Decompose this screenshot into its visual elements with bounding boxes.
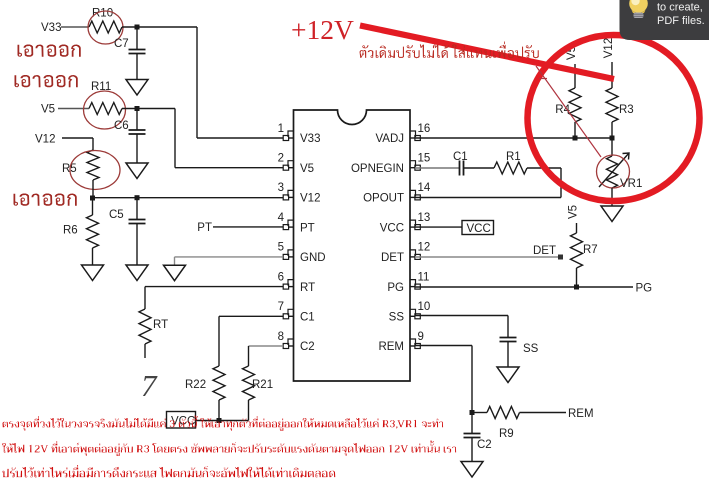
wire R5 to junction — [92, 180, 94, 198]
svg-text:PT: PT — [300, 222, 315, 234]
svg-text:VCC: VCC — [380, 222, 404, 234]
pin 3 V12 of U1 — [278, 182, 321, 204]
junction V5/C6 — [135, 106, 140, 111]
red Thai note line 1 — [3, 416, 444, 431]
svg-text:RT: RT — [300, 282, 315, 294]
svg-text:DET: DET — [381, 252, 404, 264]
pin 14 OPOUT of U1 — [363, 182, 431, 204]
pin 5 GND of U1 — [278, 242, 326, 264]
resistor R5 — [62, 150, 99, 180]
svg-text:R3: R3 — [619, 104, 634, 116]
ground under C5 — [126, 265, 148, 281]
junction REM/C2 — [470, 410, 475, 415]
svg-text:3: 3 — [278, 182, 284, 194]
capacitor C7 — [114, 38, 146, 54]
wire C7 to ground — [136, 54, 138, 80]
wire SS cap to ground — [507, 342, 509, 368]
wire R11 to corner to pin2 — [122, 109, 283, 168]
svg-text:8: 8 — [278, 331, 284, 343]
pin 7 C1 of U1 — [278, 301, 315, 323]
capacitor C2 — [464, 413, 492, 462]
red thick strike line — [360, 26, 614, 80]
wire pin9 REM down — [415, 346, 472, 413]
svg-text:9: 9 — [418, 331, 424, 343]
red Thai label remove-2 — [15, 75, 78, 87]
resistor R4 — [555, 64, 581, 138]
svg-text:V5: V5 — [568, 205, 580, 219]
node V33 label — [41, 22, 61, 34]
svg-text:VADJ: VADJ — [375, 133, 404, 145]
wire pin8 C2 to R21 — [249, 346, 284, 366]
node V5 label — [41, 103, 55, 115]
resistor R6 — [63, 198, 99, 265]
red Thai note line 2 — [2, 441, 456, 456]
svg-text:R21: R21 — [252, 379, 273, 391]
svg-text:R1: R1 — [506, 151, 521, 163]
junction VADJ/R3 — [610, 136, 615, 141]
svg-text:OPOUT: OPOUT — [363, 193, 404, 205]
svg-text:14: 14 — [418, 182, 431, 194]
svg-text:V5: V5 — [300, 163, 314, 175]
svg-text:R4: R4 — [555, 104, 570, 116]
red Thai note line 3 — [2, 465, 335, 477]
junction VCC rail R22 — [217, 418, 222, 423]
junction V33/C7 — [135, 25, 140, 30]
wire R3 to VR1 — [611, 138, 613, 156]
svg-text:SS: SS — [389, 312, 405, 324]
svg-text:V12: V12 — [300, 193, 320, 205]
junction PG/R7 — [574, 285, 579, 290]
pin 12 DET of U1 — [381, 242, 430, 264]
ground at pin5 — [164, 265, 186, 281]
svg-text:2: 2 — [278, 153, 284, 165]
pin 2 V5 of U1 — [278, 153, 314, 175]
red thin pointer line to VR1 — [536, 66, 601, 157]
power flag VCC bottom — [167, 412, 196, 429]
wire pin15 to C1 — [415, 167, 460, 169]
svg-text:V12: V12 — [603, 38, 615, 58]
svg-text:PDF files.: PDF files. — [657, 15, 705, 27]
junction R5/R6 node — [90, 196, 95, 201]
svg-text:V33: V33 — [41, 22, 61, 34]
svg-text:GND: GND — [300, 252, 326, 264]
svg-text:7: 7 — [141, 368, 158, 403]
svg-text:OPNEGIN: OPNEGIN — [351, 163, 404, 175]
wire V33 to R10 — [61, 26, 89, 28]
red Thai label remove-3 — [14, 194, 77, 206]
ground under C7 — [126, 80, 148, 96]
svg-text:R5: R5 — [62, 163, 77, 175]
wire VR1 to ground — [611, 188, 613, 206]
wire junction to C7 — [136, 27, 138, 50]
svg-text:C1: C1 — [453, 151, 468, 163]
red circle annotation around R10 — [88, 11, 123, 44]
wire R10 to corner — [122, 27, 283, 138]
svg-text:R22: R22 — [185, 379, 206, 391]
op-amp controller IC U1 — [294, 110, 411, 381]
wire R21 to VCC rail — [248, 400, 250, 421]
pin 1 V33 of U1 — [278, 123, 321, 145]
wire junction to C6 — [136, 109, 138, 131]
resistor R9 — [472, 407, 566, 441]
wire PT to pin4 — [213, 226, 283, 228]
svg-text:REM: REM — [378, 341, 404, 353]
svg-text:C6: C6 — [114, 120, 129, 132]
wire C6 to ground — [136, 134, 138, 163]
wire VCC to R22/R21 — [196, 420, 249, 422]
node V12 label — [35, 133, 55, 145]
svg-text:VCC: VCC — [467, 223, 491, 235]
pin 13 VCC of U1 — [380, 212, 431, 234]
svg-text:15: 15 — [418, 153, 431, 165]
svg-text:V33: V33 — [300, 133, 320, 145]
pin 16 VADJ of U1 — [375, 123, 430, 145]
svg-text:C7: C7 — [114, 38, 129, 50]
pin 9 REM of U1 — [378, 331, 423, 353]
ground under C2 — [461, 462, 483, 478]
svg-text:5: 5 — [278, 242, 284, 254]
ground under VR1 — [601, 206, 623, 222]
wire pin13 to VCC — [415, 226, 462, 228]
svg-text:+12V: +12V — [291, 14, 354, 45]
wire node to pin3 V12 — [93, 197, 284, 199]
wire RT open end — [144, 344, 146, 358]
wire R1 to pin14 OPOUT — [415, 168, 561, 198]
ground under C6 — [126, 163, 148, 179]
pin 8 C2 of U1 — [278, 331, 315, 353]
red Thai annotation near +12V — [360, 42, 539, 59]
svg-text:11: 11 — [418, 271, 430, 283]
ground under SS — [497, 367, 519, 383]
pin 6 RT of U1 — [278, 271, 316, 293]
svg-text:7: 7 — [278, 301, 284, 313]
svg-text:6: 6 — [278, 271, 284, 283]
capacitor C5 — [109, 198, 146, 265]
resistor R1 — [494, 151, 527, 174]
pin 10 SS of U1 — [389, 301, 431, 323]
svg-text:16: 16 — [418, 123, 431, 135]
pin 4 PT of U1 — [278, 212, 315, 234]
svg-text:C5: C5 — [109, 209, 124, 221]
PDF-creator popup banner — [620, 0, 709, 40]
wire R22 to VCC rail — [218, 400, 220, 421]
ground under R6 — [82, 265, 104, 281]
resistor R22 — [185, 366, 225, 400]
capacitor C1 — [453, 151, 468, 176]
node PT label — [197, 222, 212, 234]
svg-text:RT: RT — [153, 319, 168, 331]
svg-text:4: 4 — [278, 212, 285, 224]
node DET terminal — [558, 255, 563, 260]
pin 11 PG of U1 — [387, 271, 429, 293]
svg-text:V5: V5 — [41, 103, 55, 115]
svg-text:PG: PG — [387, 282, 404, 294]
red circle annotation around R11 — [84, 91, 126, 129]
svg-text:13: 13 — [418, 212, 431, 224]
svg-text:REM: REM — [568, 408, 594, 420]
capacitor SS — [500, 338, 539, 356]
wire pin11 PG — [415, 286, 633, 288]
resistor R7 — [571, 223, 598, 287]
svg-text:V12: V12 — [35, 133, 55, 145]
svg-text:VR1: VR1 — [620, 178, 642, 190]
potentiometer VR1 — [597, 153, 643, 190]
wire pin12 DET — [415, 256, 558, 258]
svg-text:PG: PG — [636, 282, 653, 294]
resistor R3 — [606, 62, 634, 138]
resistor R11 — [89, 81, 122, 115]
junction VADJ/R4 — [573, 136, 578, 141]
red circle annotation around R5 — [70, 151, 120, 190]
svg-text:12: 12 — [418, 242, 431, 254]
wire pin16 VADJ to R3 — [415, 137, 612, 139]
svg-text:C1: C1 — [300, 312, 315, 324]
svg-text:1: 1 — [278, 123, 284, 135]
svg-text:C2: C2 — [477, 439, 492, 451]
resistor R10 — [89, 8, 122, 34]
svg-text:PT: PT — [197, 222, 212, 234]
power flag VCC right — [462, 221, 494, 235]
svg-text:SS: SS — [523, 343, 539, 355]
wire C1 to R1 — [464, 167, 495, 169]
wire pin5 GND to ground — [175, 257, 284, 265]
svg-text:R7: R7 — [583, 244, 598, 256]
wire V5 to R11 — [58, 108, 89, 110]
pin 15 OPNEGIN of U1 — [351, 153, 430, 175]
svg-text:R6: R6 — [63, 225, 78, 237]
svg-text:to create,: to create, — [657, 2, 703, 14]
svg-text:10: 10 — [418, 301, 431, 313]
wire pin6 RT to resistor RT — [145, 287, 283, 309]
resistor R21 — [243, 366, 274, 400]
svg-text:R9: R9 — [499, 428, 514, 440]
capacitor C6 — [114, 120, 146, 134]
svg-text:DET: DET — [533, 245, 556, 257]
wire pin10 SS to cap — [415, 316, 508, 338]
junction C5 tap — [135, 195, 140, 200]
wire V12 to R5 — [62, 138, 93, 150]
svg-text:C2: C2 — [300, 341, 315, 353]
red Thai label remove-1 — [18, 45, 81, 57]
red big circle annotation — [528, 35, 700, 201]
resistor RT — [139, 309, 168, 344]
wire pin7 C1 to R22 — [219, 316, 283, 366]
